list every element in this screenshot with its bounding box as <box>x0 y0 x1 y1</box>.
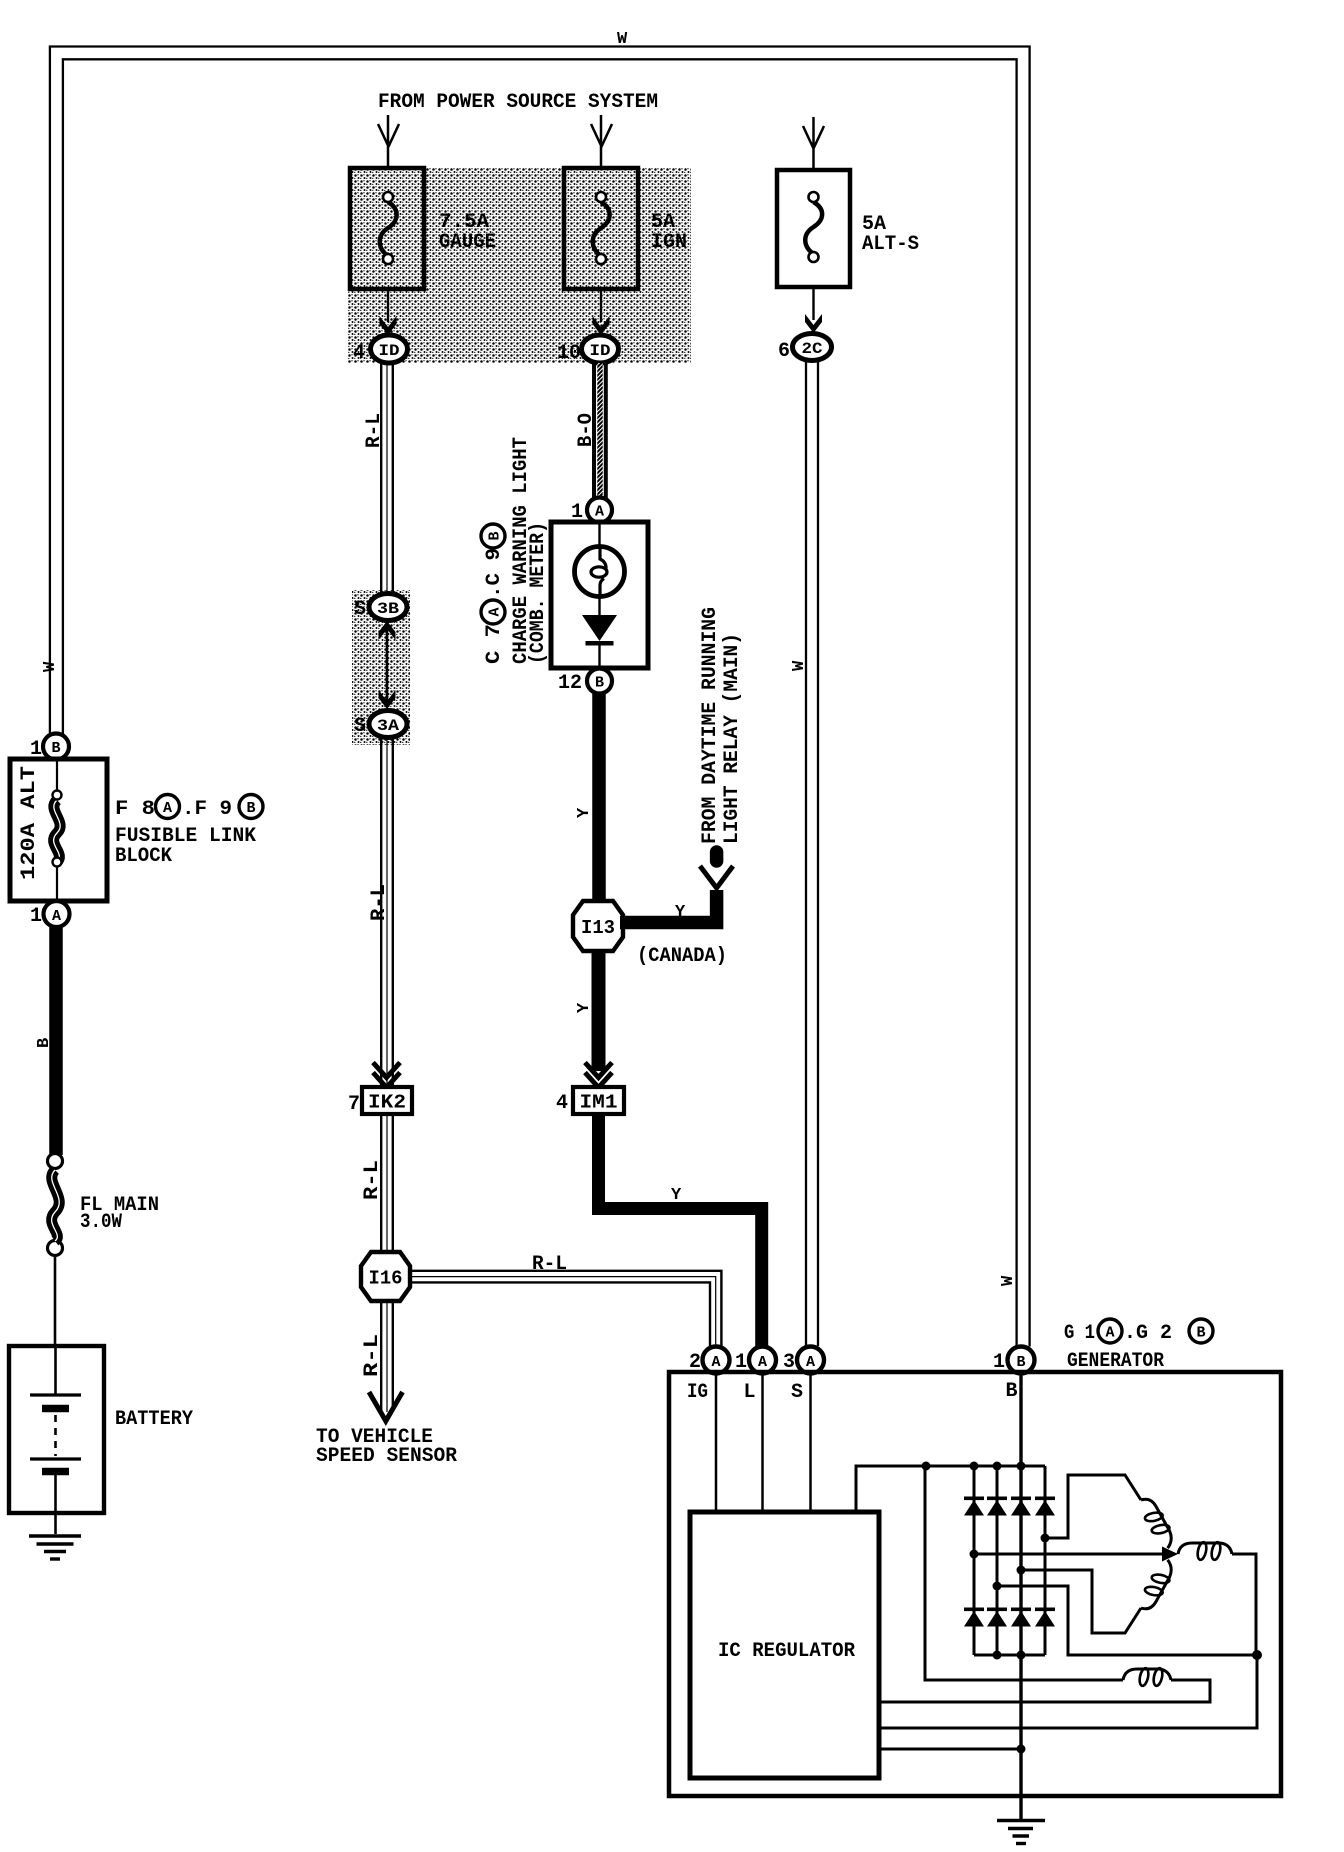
label F 8 A . F 9 B <box>115 795 263 822</box>
svg-text:R-L: R-L <box>363 413 386 448</box>
svg-text:B: B <box>1016 1354 1025 1371</box>
arrow to vehicle speed sensor <box>369 1392 403 1421</box>
wire Y (thick) from I13 down to connector IM1 <box>592 951 606 1071</box>
wire W (inner run, parallel line of same wire) <box>63 59 1017 1346</box>
diode inside meter <box>582 615 617 641</box>
wire rectifier bottom bus <box>974 1654 1045 1657</box>
connector 4 IM1 <box>556 1087 624 1115</box>
arrowhead into connector 6 2C <box>805 314 822 333</box>
svg-text:7: 7 <box>348 1093 360 1116</box>
svg-text:R-L: R-L <box>368 884 391 921</box>
battery <box>9 1346 104 1534</box>
ground (battery) <box>29 1536 81 1559</box>
svg-text:4: 4 <box>556 1092 568 1115</box>
svg-text:Y: Y <box>671 1186 682 1205</box>
wire Y (thick) from IM1 to generator L terminal <box>599 1114 762 1347</box>
feed arrow into fuse IGN <box>591 115 612 168</box>
connector 4 ID <box>353 335 408 365</box>
connector 10 ID <box>557 335 619 365</box>
wire rotor coil return to IC regulator <box>879 1680 1210 1702</box>
wire fuse GAUGE to connector 4 ID <box>387 289 389 322</box>
svg-text:.C 9: .C 9 <box>483 548 506 598</box>
svg-text:1: 1 <box>30 905 42 928</box>
wire R-L from connector 4 ID down to S 3B <box>381 363 393 595</box>
svg-text:A: A <box>806 1354 815 1371</box>
svg-text:BLOCK: BLOCK <box>115 845 172 868</box>
svg-text:W: W <box>41 661 60 672</box>
wire fuse ALT-S to connector 6 2C <box>812 287 814 320</box>
rectifier diode column 4 <box>1044 1466 1047 1655</box>
rectifier diode column 1 <box>973 1466 976 1655</box>
terminal 1 B (B) <box>993 1347 1035 1375</box>
svg-text:IK2: IK2 <box>368 1092 406 1114</box>
svg-text:(COMB. METER): (COMB. METER) <box>527 522 550 664</box>
svg-text:3A: 3A <box>377 717 399 735</box>
wire IG terminal to IC regulator <box>715 1374 718 1512</box>
svg-text:R-L: R-L <box>361 1334 384 1377</box>
charge warning light C7 A, C9 B (comb. meter) <box>551 522 648 668</box>
wire R-L from S 3A down to connector IK2 <box>381 738 393 1087</box>
svg-text:FROM POWER SOURCE SYSTEM: FROM POWER SOURCE SYSTEM <box>378 91 658 114</box>
wire phase 2 to bottom junction <box>1232 1554 1256 1655</box>
wire W (outer run): fusible link 1B up, across top, down to generator 1B <box>50 47 1030 1347</box>
svg-text:B: B <box>487 531 504 540</box>
svg-text:GENERATOR: GENERATOR <box>1067 1350 1164 1373</box>
svg-text:A: A <box>1105 1325 1114 1342</box>
wire Y branch from I13 to daytime running light relay (CANADA) <box>620 890 717 923</box>
svg-text:C 7: C 7 <box>483 624 506 664</box>
svg-text:3B: 3B <box>377 600 399 618</box>
junction dots <box>922 1462 1263 1754</box>
rectifier diodes upper row (anode up) <box>964 1497 1055 1516</box>
svg-text:A: A <box>163 800 172 817</box>
svg-text:ID: ID <box>379 342 400 360</box>
svg-text:S: S <box>354 715 366 738</box>
svg-text:4: 4 <box>353 342 365 365</box>
wire IC regulator to B line <box>879 1748 1021 1751</box>
svg-text:B: B <box>246 800 255 817</box>
wire R-L from I16 down to vehicle speed sensor arrow <box>381 1301 393 1412</box>
chevron arrows above IM1 <box>585 1063 612 1088</box>
svg-text:W: W <box>790 660 809 671</box>
junction I13 (octagon) <box>573 901 623 951</box>
wire B-O from connector 10 ID down to charge warning light 1A <box>594 363 606 498</box>
wire rectifier top bus (to IC regulator top) <box>856 1466 1045 1512</box>
svg-text:IGN: IGN <box>651 231 687 254</box>
stator phase 1 coil (diagonal) <box>1135 1494 1179 1552</box>
svg-text:12: 12 <box>558 672 582 695</box>
svg-text:S: S <box>354 598 366 621</box>
svg-text:10: 10 <box>557 342 581 365</box>
svg-text:(CANADA): (CANADA) <box>637 945 727 968</box>
wire R-L from IK2 down to junction I16 <box>381 1114 393 1252</box>
svg-text:F 8: F 8 <box>115 798 155 821</box>
wire between S 3B and S 3A with arrowheads <box>379 621 396 709</box>
rectifier diode column 2 <box>996 1466 999 1655</box>
connector 7 IK2 <box>348 1087 412 1116</box>
svg-text:GAUGE: GAUGE <box>439 231 496 254</box>
svg-text:IM1: IM1 <box>580 1092 618 1114</box>
connector 6 2C <box>778 334 832 364</box>
chevron arrows above IK2 <box>373 1063 400 1088</box>
fusible link FL MAIN 3.0W <box>48 1154 63 1256</box>
feed arrow into fuse ALT-S <box>803 117 824 170</box>
lamp bulb <box>575 547 625 597</box>
svg-text:LIGHT RELAY (MAIN): LIGHT RELAY (MAIN) <box>721 633 744 844</box>
fuse 5A IGN <box>564 168 638 289</box>
svg-text:B: B <box>35 1038 54 1048</box>
wire Y (thick) from 12B down to junction I13 <box>592 692 606 902</box>
stipple shading behind junction connectors S 3B / S 3A <box>352 590 410 745</box>
wire col4 tap to stator phase 1 <box>1045 1475 1141 1538</box>
connector 1 B (fusible link top pin) <box>30 734 69 762</box>
connector 1 A (charge warning light top) <box>571 498 612 525</box>
svg-text:W: W <box>999 1275 1018 1286</box>
svg-text:FROM DAYTIME RUNNING: FROM DAYTIME RUNNING <box>699 607 722 844</box>
wire col3 tap to stator phase 3 <box>1021 1570 1141 1633</box>
terminal 1 A (L) <box>735 1347 776 1375</box>
svg-text:B: B <box>51 740 60 757</box>
rotor field coil <box>925 1466 1123 1680</box>
junction connector S 3A <box>354 711 407 739</box>
rectifier diodes lower row (anode up) <box>964 1608 1055 1627</box>
terminal 3 A (S) <box>783 1347 824 1375</box>
wire fuse IGN to connector 10 ID <box>600 289 602 322</box>
svg-text:A: A <box>758 1354 767 1371</box>
label C 7 A . C 9 B (rotated) <box>481 524 506 664</box>
svg-text:R-L: R-L <box>532 1253 567 1276</box>
wire IC regulator to phase2/col2 junction <box>879 1655 1257 1728</box>
svg-text:120A ALT: 120A ALT <box>18 766 41 880</box>
fusible link block F8 A / F9 B, 120A ALT <box>10 759 107 913</box>
svg-text:BATTERY: BATTERY <box>115 1408 193 1431</box>
junction connector S 3B <box>354 594 407 622</box>
wire col1 tap to stator centre <box>974 1553 1164 1556</box>
svg-text:W: W <box>617 30 628 49</box>
svg-text:B: B <box>595 675 604 692</box>
arrowhead into connector 10 ID <box>593 316 610 335</box>
svg-text:S: S <box>791 1381 803 1404</box>
fuse 5A ALT-S <box>777 170 850 287</box>
svg-text:2C: 2C <box>802 340 823 358</box>
svg-text:.F 9: .F 9 <box>182 798 232 821</box>
wire B terminal down through generator to ground <box>1019 1374 1022 1820</box>
stator phase 2 coil (horizontal) <box>1178 1541 1232 1560</box>
svg-text:B-O: B-O <box>575 413 598 447</box>
svg-text:IG: IG <box>687 1381 708 1404</box>
junction I16 (octagon) <box>361 1252 410 1301</box>
fuse 7.5A GAUGE <box>350 168 424 289</box>
svg-text:Y: Y <box>675 903 686 922</box>
wire W from connector 2C down to generator S terminal <box>806 360 818 1346</box>
stator phase 3 coil (diagonal) <box>1135 1557 1179 1615</box>
wire S terminal to IC regulator <box>809 1374 812 1512</box>
stipple shading behind GAUGE and IGN fuses <box>348 167 691 363</box>
svg-text:B: B <box>1196 1325 1205 1342</box>
svg-text:SPEED SENSOR: SPEED SENSOR <box>316 1445 457 1468</box>
svg-text:IC REGULATOR: IC REGULATOR <box>718 1640 855 1663</box>
wire col2 tap to bottom junction <box>997 1586 1257 1655</box>
svg-text:L: L <box>744 1381 756 1404</box>
feed arrow into fuse GAUGE <box>378 115 399 168</box>
svg-text:B: B <box>1006 1380 1018 1403</box>
connector 1 A (fusible link bottom pin) <box>30 901 70 928</box>
generator box G1/G2 <box>669 1372 1281 1796</box>
svg-text:R-L: R-L <box>361 1160 384 1200</box>
svg-text:A: A <box>595 504 604 521</box>
arrowhead into connector 4 ID <box>380 316 397 335</box>
wire FL MAIN to battery <box>54 1255 57 1348</box>
stator centre junction arrow <box>1162 1547 1178 1562</box>
wire R-L from I16 right to generator IG terminal <box>410 1271 721 1347</box>
svg-text:A: A <box>487 607 504 616</box>
label G 1 A , G 2 B <box>1064 1319 1213 1345</box>
wire B (thick) from 1A down to FL MAIN <box>49 926 63 1155</box>
svg-text:.G 2: .G 2 <box>1124 1322 1172 1345</box>
connector 12 B (charge warning light bottom) <box>558 669 612 696</box>
svg-text:ALT-S: ALT-S <box>862 233 919 256</box>
IC regulator box <box>690 1512 879 1778</box>
wire L terminal to IC regulator <box>761 1374 764 1512</box>
svg-text:Y: Y <box>575 807 594 818</box>
ground (generator) <box>997 1821 1045 1844</box>
svg-text:6: 6 <box>778 340 790 363</box>
svg-text:G 1: G 1 <box>1064 1322 1095 1345</box>
svg-text:A: A <box>52 908 61 925</box>
svg-text:Y: Y <box>575 1002 594 1013</box>
svg-text:ID: ID <box>590 342 611 360</box>
terminal 2 A (IG) <box>689 1347 730 1375</box>
svg-text:A: A <box>711 1354 720 1371</box>
svg-text:I13: I13 <box>581 917 615 939</box>
svg-text:I16: I16 <box>369 1268 403 1290</box>
svg-text:3.0W: 3.0W <box>80 1211 122 1234</box>
